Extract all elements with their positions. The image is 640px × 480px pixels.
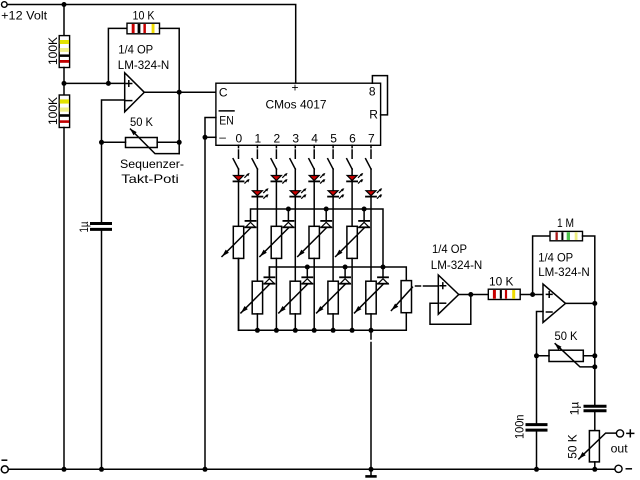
wire P12 to rail — [594, 462, 596, 469]
LED D5 — [309, 173, 325, 183]
potentiometer P11 50K — [534, 329, 597, 369]
node feedback tap — [106, 81, 111, 86]
diode D10 — [264, 267, 274, 284]
pin 3 stub — [294, 145, 296, 158]
pin 4 stub — [313, 145, 315, 158]
wire pot 3 to bus — [294, 314, 296, 330]
node bus 3 — [293, 328, 298, 333]
resistor R5 1M — [533, 216, 595, 303]
resistor R4 10K — [488, 274, 520, 299]
potentiometer P4 — [260, 226, 289, 258]
svg-text:1/4 OP: 1/4 OP — [118, 43, 153, 57]
wire cap to rail — [101, 231, 103, 469]
svg-text:CMos 4017: CMos 4017 — [266, 97, 327, 111]
wire switch to LED 1 — [256, 169, 258, 191]
node EN ground junction — [203, 135, 208, 140]
node bus 5 — [331, 328, 336, 333]
wire LED to pot 4 — [313, 182, 315, 226]
wire bottom bus — [239, 258, 407, 330]
terminal minus left — [1, 466, 8, 473]
node bus 2 — [274, 328, 279, 333]
svg-text:1µ: 1µ — [77, 221, 91, 232]
wire EN to ground — [205, 118, 216, 470]
svg-text:7: 7 — [368, 132, 375, 146]
potentiometer P2 — [222, 226, 251, 258]
pin 7 stub — [370, 145, 372, 158]
node rail2 d5 — [343, 265, 348, 270]
svg-text:1/4 OP: 1/4 OP — [538, 251, 573, 265]
wire C2 to rail — [536, 432, 538, 470]
svg-text:8: 8 — [369, 84, 376, 98]
IC U2 CMos 4017 — [216, 80, 381, 145]
LED D6 — [328, 188, 344, 198]
switch S5 — [309, 159, 314, 169]
pin 2 stub — [275, 145, 277, 158]
potentiometer P7 — [317, 281, 346, 314]
node op1 output — [177, 90, 182, 95]
wire pin8 to R loop — [372, 76, 387, 115]
svg-text:1/4 OP: 1/4 OP — [432, 242, 467, 256]
node rail1 d2 — [286, 207, 291, 212]
wire node to cap — [101, 142, 103, 222]
wire LED to pot 0 — [238, 182, 240, 226]
svg-text:100n: 100n — [513, 415, 527, 440]
node rail x594 — [592, 467, 597, 472]
svg-text:5: 5 — [330, 132, 337, 146]
svg-text:3: 3 — [292, 132, 299, 146]
svg-text:LM-324-N: LM-324-N — [118, 58, 170, 72]
node bus 4 — [312, 328, 317, 333]
svg-text:Sequenzer-: Sequenzer- — [120, 157, 184, 171]
wire op3 output — [566, 302, 595, 304]
node pot left — [99, 140, 104, 145]
resistor R3 10K feedback — [108, 8, 179, 153]
node A divider — [62, 81, 67, 86]
diode D15 — [359, 209, 369, 227]
wire R2 to ground rail — [63, 128, 65, 470]
LED D2 — [252, 188, 268, 198]
wire switch to LED 3 — [294, 169, 296, 191]
node rail x64 — [62, 467, 67, 472]
resistor R1 100K — [46, 36, 70, 68]
svg-text:R: R — [369, 108, 378, 122]
svg-text:Takt-Poti: Takt-Poti — [121, 172, 179, 186]
potentiometer P3 — [241, 281, 270, 314]
node rail2 rail1-drop — [381, 265, 386, 270]
pin 6 stub — [351, 145, 353, 158]
svg-text:–: – — [219, 130, 226, 144]
node rail1 d6 — [362, 207, 367, 212]
node op3 plus input — [530, 292, 535, 297]
svg-text:0: 0 — [236, 132, 243, 146]
wire pot 6 to bus — [351, 258, 353, 330]
svg-text:50 K: 50 K — [566, 434, 580, 459]
wire between resistors — [63, 68, 65, 96]
wire buffer output — [459, 294, 489, 296]
svg-text:EN: EN — [219, 114, 234, 128]
wire switch to LED 7 — [370, 169, 372, 191]
wire divider to op-amp — [64, 82, 125, 84]
wire pot 5 to bus — [332, 314, 334, 330]
wire LED to pot 6 — [351, 182, 353, 226]
potentiometer P12 out 50K — [566, 431, 617, 462]
node top rail junction — [62, 2, 67, 7]
node rail2 d3 — [305, 265, 310, 270]
LED D7 — [347, 173, 363, 183]
capacitor C2 100n — [513, 415, 547, 440]
svg-text:LM-324-N: LM-324-N — [431, 258, 483, 272]
wire minus pin — [205, 136, 216, 138]
op-amp U1C — [538, 251, 590, 323]
svg-text:6: 6 — [349, 132, 356, 146]
wire op1 output to C — [144, 91, 216, 93]
potentiometer P5 — [279, 281, 308, 314]
svg-text:100K: 100K — [46, 97, 60, 125]
switch S1 — [233, 159, 238, 169]
svg-text:LM-324-N: LM-324-N — [538, 265, 590, 279]
wire switch to LED 0 — [238, 169, 240, 176]
wire pot 0 to bus — [238, 258, 240, 330]
terminal out minus — [615, 465, 622, 472]
resistor R2 100K — [46, 95, 70, 128]
wire top rail — [7, 5, 296, 84]
wire LED to pot 1 — [256, 198, 258, 282]
wire switch to LED 2 — [275, 169, 277, 176]
switch S3 — [271, 159, 276, 169]
LED D8 — [366, 188, 382, 198]
potentiometer P9 — [355, 281, 384, 314]
pin 1 stub — [256, 145, 258, 158]
svg-text:100K: 100K — [46, 37, 60, 65]
wire R4 to op3 — [520, 294, 543, 296]
svg-text:2: 2 — [273, 132, 280, 146]
node rail1 d4 — [324, 207, 329, 212]
wire C3 to P12 — [594, 412, 596, 431]
wire bus ground drop — [370, 330, 372, 469]
wire op3 minus down — [536, 356, 538, 423]
wire LED to pot 7 — [370, 198, 372, 282]
svg-text:1µ: 1µ — [568, 402, 582, 416]
diode D13 — [321, 209, 331, 227]
svg-text:C: C — [219, 86, 228, 100]
node buffer output — [468, 292, 473, 297]
potentiometer P8 — [336, 226, 365, 258]
node rail x101 — [99, 467, 104, 472]
wire pot 7 to bus — [370, 314, 372, 330]
wire +12V down — [63, 5, 65, 36]
capacitor C1 1u — [77, 221, 111, 232]
svg-text:out: out — [611, 442, 629, 456]
wire rail1-drop to diode D16 — [382, 267, 384, 277]
potentiometer P1 50K — [102, 115, 182, 154]
switch S7 — [347, 159, 352, 169]
wire op3 inverting — [537, 312, 544, 356]
svg-text:4: 4 — [311, 132, 318, 146]
LED D3 — [271, 173, 287, 183]
switch S8 — [366, 159, 371, 169]
node rail x536 — [534, 467, 539, 472]
wire LED to pot 5 — [332, 198, 334, 282]
svg-text:+12 Volt: +12 Volt — [1, 9, 48, 23]
potentiometer P10 level — [391, 281, 438, 313]
terminal +12V — [2, 2, 8, 8]
wire inverting input — [102, 100, 125, 142]
pin labels 0-7 — [236, 132, 376, 146]
pin 0 stub — [238, 145, 240, 158]
LED D1 — [234, 173, 250, 183]
diode D11 — [283, 209, 293, 227]
wire switch to LED 4 — [313, 169, 315, 176]
svg-text:50 K: 50 K — [555, 329, 578, 343]
LED D4 — [290, 188, 306, 198]
diode D14 — [340, 267, 350, 284]
svg-text:10 K: 10 K — [133, 8, 155, 22]
node rail x205 — [203, 467, 208, 472]
wire pot 1 to bus — [256, 314, 258, 330]
wire switch to LED 6 — [351, 169, 353, 176]
diode D16 — [378, 277, 388, 283]
switch S4 — [290, 159, 295, 169]
svg-text:+: + — [292, 80, 299, 94]
node bus 6 — [350, 328, 355, 333]
wire buffer feedback — [430, 295, 471, 325]
wire pot 4 to bus — [313, 258, 315, 330]
wire LED to pot 3 — [294, 198, 296, 282]
capacitor C3 1u — [568, 402, 606, 416]
ground rail — [9, 468, 615, 470]
diode D9 — [246, 221, 256, 227]
node rail x371 — [369, 467, 374, 472]
svg-text:50 K: 50 K — [130, 115, 153, 129]
pin 5 stub — [332, 145, 334, 158]
switch S6 — [328, 159, 333, 169]
diode D12 — [302, 267, 312, 284]
terminal out plus — [616, 430, 623, 437]
node bus 7 — [369, 328, 374, 333]
op-amp U1A — [118, 43, 170, 112]
node bus 1 — [255, 328, 260, 333]
svg-text:10 K: 10 K — [489, 274, 514, 288]
node op3 output — [592, 301, 597, 306]
svg-text:1: 1 — [254, 132, 261, 146]
wire LED to pot 2 — [275, 182, 277, 226]
wire switch to LED 5 — [332, 169, 334, 191]
wire mix rail 2 — [269, 267, 406, 281]
wire pot 2 to bus — [275, 258, 277, 330]
wire op3 output down — [594, 303, 596, 405]
svg-text:1 M: 1 M — [557, 216, 574, 230]
ground symbol — [370, 469, 372, 475]
op-amp U1B buffer — [431, 242, 483, 314]
potentiometer P6 — [298, 226, 327, 258]
switch S2 — [252, 159, 257, 169]
wire mix rail 1 — [251, 209, 384, 267]
